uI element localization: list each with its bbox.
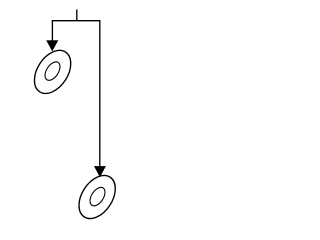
node A: outer ellipse (left donut)	[27, 44, 78, 100]
node B: outer ellipse (bottom donut)	[71, 169, 122, 225]
wire: branch (left drop, horizontal bar, right drop)	[52, 21, 99, 167]
arrowhead: left edge	[47, 41, 58, 51]
arrowhead: right edge	[95, 166, 106, 176]
node B: inner ellipse (bottom donut hole)	[87, 185, 108, 209]
node A: inner ellipse (left donut hole)	[42, 59, 63, 83]
wire: top stub	[76, 10, 78, 21]
